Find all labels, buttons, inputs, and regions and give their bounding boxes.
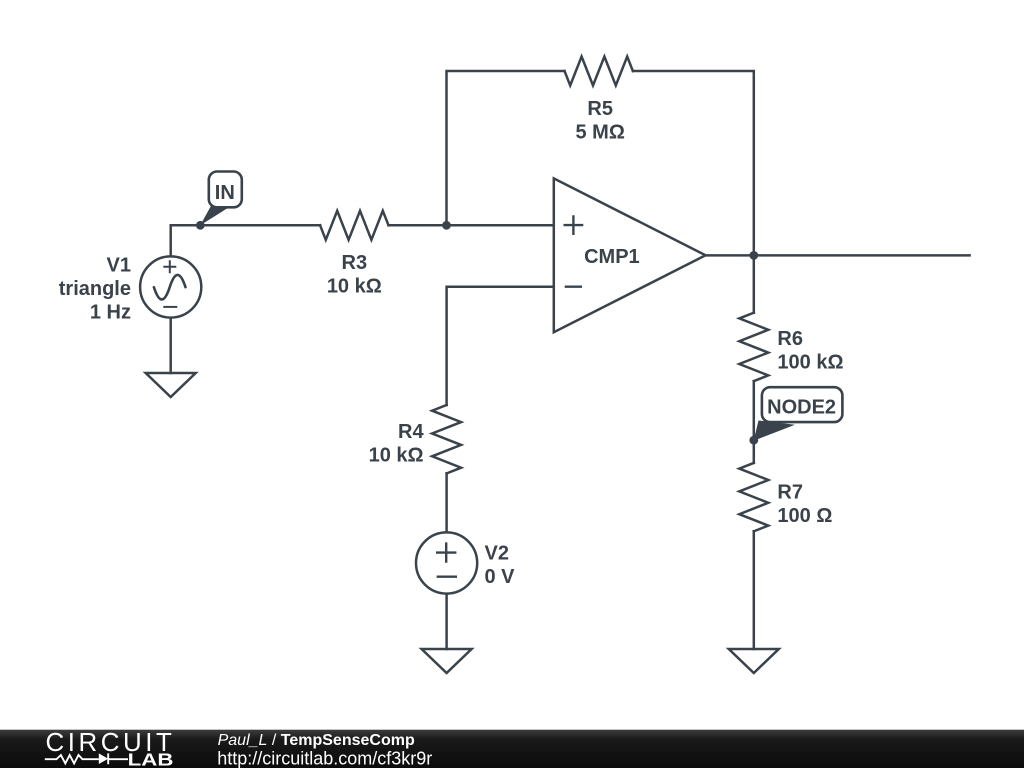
junction dot at op-amp output [749, 251, 758, 260]
svg-text:http://circuitlab.com/cf3kr9r: http://circuitlab.com/cf3kr9r [217, 748, 432, 768]
wire R4 to V2 [445, 473, 448, 532]
junction dot at IN node [196, 221, 205, 230]
resistor R6 [739, 313, 768, 381]
node NODE2 pointer wedge [754, 421, 795, 441]
svg-text:R3: R3 [342, 252, 368, 274]
R7 labels [777, 481, 832, 527]
V1 labels [59, 254, 131, 323]
svg-text:R7: R7 [777, 481, 803, 503]
wire R7 to ground [753, 531, 756, 649]
svg-text:R4: R4 [398, 421, 424, 443]
resistor R7 [739, 463, 768, 531]
svg-text:triangle: triangle [59, 278, 131, 300]
wire V1 to ground [169, 318, 172, 373]
wire feedback right: R5 to output node [633, 71, 754, 255]
V1 plus sign [163, 260, 176, 273]
logo resistor-diode squiggle [45, 753, 128, 764]
resistor R5 [565, 57, 633, 86]
svg-text:1 Hz: 1 Hz [90, 301, 131, 323]
R3 labels [327, 252, 382, 298]
wire V2 to ground [445, 594, 448, 649]
op-amp plus input sign [564, 215, 584, 235]
svg-text:Paul_L / TempSenseComp: Paul_L / TempSenseComp [218, 732, 415, 749]
wire op-amp output [706, 254, 970, 257]
junction dot feedback/input node [442, 221, 451, 230]
wire output node down to R6 [753, 255, 756, 312]
voltage source V2 circle [416, 532, 477, 593]
svg-text:10 kΩ: 10 kΩ [327, 275, 382, 297]
wire R3 right to op-amp + input [389, 224, 554, 227]
node NODE2 tag box [762, 387, 843, 422]
footer bar [0, 730, 1024, 768]
voltage source V1 circle [140, 256, 201, 317]
V1 sine glyph [154, 275, 186, 300]
resistor R4 [432, 405, 461, 473]
wire R6 to R7 through NODE2 [753, 381, 756, 463]
R5 labels [576, 98, 625, 144]
R6 labels [777, 328, 843, 374]
ground below R7 [729, 649, 779, 673]
wire feedback left vertical + top [447, 71, 565, 225]
svg-text:100 Ω: 100 Ω [777, 505, 832, 527]
junction dot at NODE2 [749, 436, 758, 445]
svg-text:100 kΩ: 100 kΩ [777, 351, 843, 373]
V2 plus sign [436, 542, 456, 562]
svg-text:5 MΩ: 5 MΩ [576, 122, 625, 144]
svg-text:LAB: LAB [128, 750, 174, 768]
svg-text:R5: R5 [587, 98, 613, 120]
R4 labels [369, 421, 425, 467]
op-amp CMP1 triangle [554, 178, 706, 332]
svg-text:IN: IN [215, 182, 235, 204]
svg-text:V2: V2 [485, 542, 509, 564]
V2 labels [485, 542, 516, 588]
svg-text:10 kΩ: 10 kΩ [369, 444, 424, 466]
V2 minus sign [437, 576, 457, 578]
resistor R3 [320, 211, 388, 240]
svg-text:0 V: 0 V [485, 566, 516, 588]
logo diode triangle [99, 753, 108, 764]
wire V1 top to main input wire [171, 225, 320, 256]
node IN tag box [209, 172, 242, 208]
svg-text:R6: R6 [777, 328, 803, 350]
svg-text:CMP1: CMP1 [584, 246, 640, 268]
op-amp minus input sign [565, 286, 582, 288]
ground below V1 [146, 373, 196, 397]
node IN pointer wedge [200, 204, 227, 225]
ground below V2 [422, 649, 472, 673]
V1 minus sign [163, 306, 177, 308]
wire op-amp minus input to R4 [447, 287, 554, 405]
svg-text:NODE2: NODE2 [767, 396, 836, 418]
svg-text:V1: V1 [107, 254, 131, 276]
